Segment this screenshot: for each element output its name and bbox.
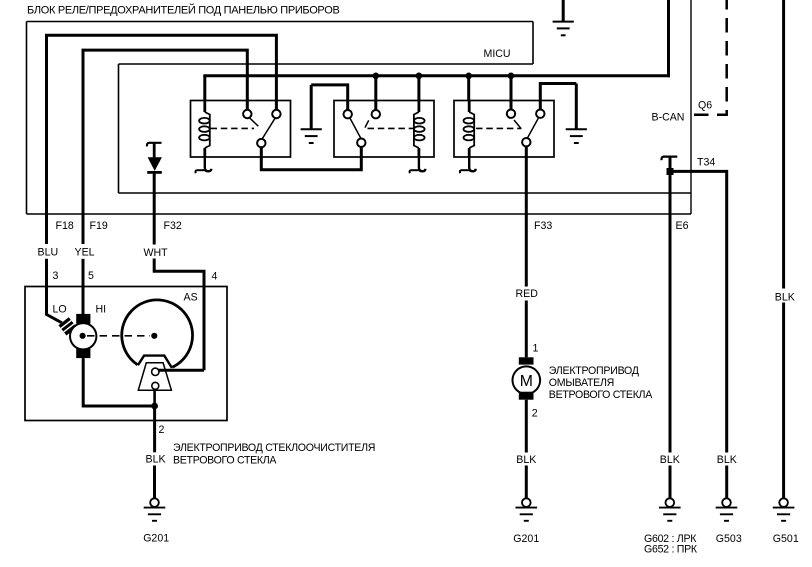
inner relay sub-box bottom edge [119, 192, 692, 194]
svg-text:BLK: BLK [717, 454, 737, 466]
wire F19 lower segment [82, 259, 85, 316]
wire F33 RED upper [525, 147, 528, 287]
wiper motor M2 bottom brush [76, 348, 90, 358]
relay K2 coil [417, 101, 420, 113]
wire K2 NC contact to ground [311, 85, 348, 110]
power bus wire [203, 74, 670, 77]
relay K3 coil pigtail [469, 157, 476, 171]
wire WHT to pin 4 [154, 259, 204, 371]
wire washer BLK to ground [525, 466, 528, 499]
wiper gear circle [122, 300, 193, 368]
svg-text:T34: T34 [697, 156, 715, 168]
svg-text:2: 2 [159, 424, 165, 436]
svg-text:BLU: BLU [38, 246, 59, 258]
wire pin2 down [153, 406, 156, 452]
fuse/relay box outline left edge [26, 22, 28, 215]
wire diode anode [153, 143, 156, 158]
bus feed wire from top [667, 0, 670, 77]
wire E6 to ground [669, 466, 672, 499]
wire park contact2 to node [153, 389, 156, 406]
washer motor M1 body [513, 366, 541, 394]
wire G503 lower [725, 466, 728, 499]
gear notch outline [138, 356, 172, 368]
relay K1 box [191, 101, 291, 158]
svg-text:AS: AS [184, 292, 198, 304]
wire bus to K2 NO contact [374, 76, 377, 110]
wire G501 upper [782, 0, 785, 289]
wire F19 from relay 1 NC contact [83, 50, 247, 244]
relay K1 switch arm [262, 118, 276, 140]
relay K2 coil pigtail [419, 157, 426, 171]
relay K2 dashed link [368, 127, 414, 129]
node wiper pin2 junction [151, 403, 158, 410]
park switch contact 2 [152, 382, 159, 389]
relay K1 coil pigtail [205, 157, 212, 171]
svg-text:ВЕТРОВОГО СТЕКЛА: ВЕТРОВОГО СТЕКЛА [549, 389, 653, 401]
wire bus to K1 coil [203, 76, 206, 101]
relay K2 terminal NO [372, 110, 380, 118]
relay K2 terminal NC [344, 110, 352, 118]
washer motor M1 bottom brush [519, 392, 534, 400]
dashed shaft link to gear [87, 335, 150, 337]
relay K3 contact tick [514, 120, 521, 128]
wire K1 common to K2 common [261, 147, 361, 170]
wire F32 below diode [153, 172, 156, 244]
washer motor M1 top brush [519, 357, 534, 364]
MICU box right edge [532, 22, 534, 65]
relay K3 terminal NO [536, 110, 544, 118]
relay K1 contact tick [249, 118, 258, 127]
relay K3 switch arm [527, 118, 539, 139]
node bus-R3sw [508, 73, 515, 80]
svg-text:G652 : ПРК: G652 : ПРК [644, 543, 698, 555]
svg-text:BLK: BLK [146, 453, 166, 465]
relay K1 dashed link [211, 127, 255, 129]
relay K2 contact tick [365, 120, 369, 127]
MICU box bottom edge / inner box top [119, 63, 534, 65]
svg-text:LO: LO [53, 303, 67, 315]
svg-text:E6: E6 [676, 220, 689, 232]
svg-text:M: M [520, 373, 533, 390]
wire HI brush to pin2 node [83, 358, 151, 406]
wire pin 4 to park contact [159, 369, 204, 372]
relay K2 switch arm [350, 118, 362, 139]
relay K1 common terminal [257, 139, 265, 147]
wiper assembly box [25, 287, 227, 421]
connector terminal above diode [147, 143, 162, 147]
svg-text:F19: F19 [90, 220, 108, 232]
fuse/relay box outline right edge (B-CAN pin wire) [690, 0, 692, 214]
svg-text:5: 5 [88, 270, 94, 282]
relay K3 coil [468, 101, 471, 113]
node bus-R3coil [465, 73, 472, 80]
svg-text:RED: RED [516, 288, 539, 300]
svg-text:BLK: BLK [660, 454, 680, 466]
relay K3 box [454, 101, 554, 158]
relay K1 terminal NO [272, 110, 280, 118]
svg-text:F33: F33 [534, 220, 552, 232]
fuse/relay box outline bottom edge [27, 213, 692, 215]
relay K2 common terminal [357, 139, 365, 147]
svg-text:ОМЫВАТЕЛЯ: ОМЫВАТЕЛЯ [549, 377, 614, 389]
svg-text:F32: F32 [164, 220, 182, 232]
svg-text:4: 4 [212, 270, 218, 282]
wire T34 to G503 [670, 171, 727, 452]
svg-text:2: 2 [532, 407, 538, 419]
svg-text:G501: G501 [773, 533, 799, 545]
wire bus to K2 coil [417, 76, 420, 101]
svg-text:BLK: BLK [775, 291, 795, 303]
wire RED to washer motor [525, 301, 528, 358]
ground G503 [722, 498, 731, 507]
gear notch erase [137, 355, 173, 372]
svg-text:B-CAN: B-CAN [652, 111, 685, 123]
wire bus to K3 coil [467, 76, 470, 101]
svg-text:YEL: YEL [75, 246, 95, 258]
svg-text:MICU: MICU [484, 48, 511, 60]
wire bus to K3 contact [510, 76, 513, 110]
svg-text:G201: G201 [513, 533, 539, 545]
svg-text:WHT: WHT [144, 247, 169, 259]
node bus-R2sw [373, 73, 380, 80]
ground at relay K2 [310, 85, 313, 129]
wiper gear center dot [151, 333, 157, 339]
svg-text:BLK: BLK [516, 454, 536, 466]
ground G201 washer [522, 498, 531, 507]
wire G501 lower [782, 303, 785, 499]
wiper motor M2 body [70, 323, 96, 349]
connector terminal T34 [662, 157, 678, 161]
wire E6 down [669, 171, 672, 452]
ground at relay K3 [575, 84, 578, 130]
inner relay sub-box left edge [118, 64, 120, 193]
wiper motor M2 center dot [80, 333, 86, 339]
svg-text:3: 3 [53, 270, 59, 282]
svg-text:1: 1 [533, 342, 539, 354]
svg-text:БЛОК РЕЛЕ/ПРЕДОХРАНИТЕЛЕЙ ПОД: БЛОК РЕЛЕ/ПРЕДОХРАНИТЕЛЕЙ ПОД ПАНЕЛЬЮ ПР… [27, 3, 339, 16]
wire washer motor to BLK [525, 400, 528, 453]
ground G501 [779, 498, 788, 507]
svg-text:G201: G201 [143, 532, 169, 544]
svg-text:ВЕТРОВОГО СТЕКЛА: ВЕТРОВОГО СТЕКЛА [173, 455, 277, 467]
relay K2 box [334, 101, 434, 158]
wire K3 NO contact to ground [540, 84, 576, 110]
relay K1 terminal NC [243, 110, 251, 118]
svg-text:Q6: Q6 [698, 99, 712, 111]
node T34 junction [667, 168, 674, 175]
ground G602/G652 [666, 498, 675, 507]
wire Q6 dashed to B-CAN [690, 0, 727, 115]
fuse/relay box outline top edge [27, 21, 534, 23]
wiper HI brush [76, 314, 90, 324]
ground at MICU top [562, 0, 565, 22]
wire F18 from relay 1 NO contact [47, 35, 277, 244]
wire T34 drop [669, 157, 672, 171]
park switch cam trapezoid [138, 363, 171, 390]
ground G201 wiper [150, 498, 159, 507]
wiper LO brush [58, 317, 76, 335]
relay K3 terminal c1 [507, 110, 515, 118]
svg-text:G503: G503 [716, 533, 742, 545]
node bus-R2coil [416, 73, 423, 80]
diode D1 [148, 157, 162, 171]
relay K3 dashed link [476, 127, 522, 129]
svg-text:HI: HI [96, 303, 107, 315]
svg-text:F18: F18 [56, 220, 74, 232]
park switch contact 1 [152, 368, 159, 375]
wire F18 lower segment [47, 259, 62, 323]
wire wiper BLK to ground [153, 466, 156, 499]
svg-text:ЭЛЕКТРОПРИВОД СТЕКЛООЧИСТИТЕЛЯ: ЭЛЕКТРОПРИВОД СТЕКЛООЧИСТИТЕЛЯ [173, 442, 375, 454]
svg-text:ЭЛЕКТРОПРИВОД: ЭЛЕКТРОПРИВОД [549, 365, 639, 377]
relay K3 common terminal [522, 138, 530, 146]
relay K1 coil [203, 101, 206, 113]
